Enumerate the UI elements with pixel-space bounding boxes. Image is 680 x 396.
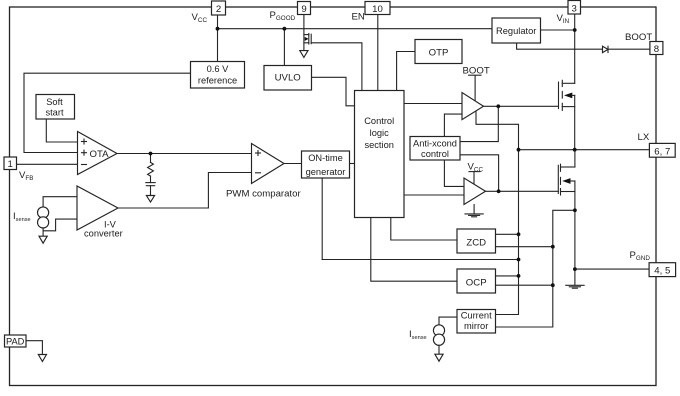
wire Q3 gate to control logic <box>311 43 362 91</box>
resistor R1 compensation <box>148 162 154 176</box>
block OCP <box>457 269 496 293</box>
ground arrow below Q3 <box>300 51 308 58</box>
junction OCP out1 <box>517 274 521 278</box>
op-amp PWM comparator <box>226 144 301 200</box>
wire low side driver to ground <box>473 205 475 214</box>
block Regulator <box>492 18 541 43</box>
junction PGND <box>573 267 577 271</box>
svg-text:BOOT: BOOT <box>625 32 652 43</box>
pin 10 <box>365 2 390 16</box>
wire Q2 source sense bus <box>496 210 575 327</box>
svg-text:6, 7: 6, 7 <box>654 146 670 157</box>
wire control logic to OCP input <box>371 218 457 282</box>
block OTP <box>415 40 462 64</box>
svg-text:control: control <box>421 149 449 159</box>
block Anti-xcond control <box>410 137 460 161</box>
ground arrow below PAD <box>38 355 46 362</box>
pin PAD <box>5 335 27 347</box>
junction VCC bus pin2 <box>216 27 220 31</box>
node VCC net label at driver <box>468 162 484 174</box>
wire I-V converter output to PWM comparator minus <box>118 173 252 209</box>
svg-text:4, 5: 4, 5 <box>654 266 670 277</box>
wire EN pin10 vertical to control logic <box>377 15 379 91</box>
svg-text:OTA: OTA <box>90 149 110 160</box>
pin 1 <box>4 157 17 170</box>
current source I2 Isense right <box>433 325 444 336</box>
svg-text:OCP: OCP <box>466 278 487 289</box>
svg-text:section: section <box>364 140 393 150</box>
junction VCC bus UVLO <box>283 27 287 31</box>
pin 4,5 <box>649 263 676 277</box>
transistor Q2 low side NMOS <box>558 150 575 211</box>
junction VIN regulator <box>573 28 577 32</box>
junction ZCD out1 <box>517 232 521 236</box>
svg-text:LX: LX <box>638 132 650 143</box>
wire anti-xcond top to high side driver <box>444 114 462 136</box>
svg-text:logic: logic <box>370 128 389 138</box>
pin 8 <box>650 42 663 56</box>
pin 2 <box>212 1 226 15</box>
wire control logic to high side driver <box>404 103 462 105</box>
wire PAD to ground <box>26 341 42 355</box>
transistor Q3 PGOOD open drain <box>304 34 311 45</box>
junction ZCD out2 <box>551 245 555 249</box>
wire control logic to low side driver <box>404 194 464 196</box>
wire I2 to ground <box>438 345 440 354</box>
svg-text:start: start <box>45 108 63 118</box>
wire PGND line to pin 4,5 <box>575 268 649 270</box>
svg-text:3: 3 <box>572 4 577 15</box>
wire ON-time generator bottom drop <box>321 178 323 260</box>
wire VCC pin2 vertical to 0.6V reference <box>217 15 219 62</box>
current source I1 Isense left <box>38 207 49 218</box>
wire I1 bottom to ground <box>42 228 44 236</box>
svg-text:ZCD: ZCD <box>466 237 486 248</box>
diode D1 bootstrap <box>603 46 609 52</box>
pin 9 <box>298 2 311 16</box>
svg-text:1: 1 <box>8 159 13 170</box>
wire ZCD output 2 to source sense bus <box>496 246 553 248</box>
block ZCD <box>457 229 496 253</box>
wire OTA output to PWM comparator plus <box>117 153 252 155</box>
block UVLO <box>264 66 312 91</box>
wire I1 bottom branch to I-V converter lower input <box>43 219 77 231</box>
wire OCP output 2 to source sense bus <box>496 284 553 286</box>
svg-text:mirror: mirror <box>464 321 488 331</box>
capacitor C1 compensation <box>146 182 155 184</box>
wire PGOOD pin9 vertical to Q3 drain <box>303 15 305 51</box>
svg-text:Soft: Soft <box>46 97 63 107</box>
svg-text:EN: EN <box>352 12 365 23</box>
svg-text:converter: converter <box>84 229 123 239</box>
wire high side driver output to Q1 gate <box>484 105 559 107</box>
ground earth PGND <box>566 284 584 286</box>
node BOOT net label at driver <box>463 66 490 77</box>
wire C1 to ground <box>150 186 152 196</box>
wire long net to sense bus <box>322 259 518 261</box>
low side gate driver U3 <box>464 178 486 205</box>
node BOOT label drop to driver <box>474 76 476 101</box>
ground arrow below C1 <box>146 196 154 203</box>
wire VIN pin3 vertical to Q1 drain <box>574 14 576 84</box>
wire VFB pin1 to OTA minus input <box>17 163 78 165</box>
svg-text:generator: generator <box>306 167 346 177</box>
svg-text:Current: Current <box>461 311 492 321</box>
wire diode D1 cathode to BOOT pin8 <box>608 48 650 50</box>
svg-text:Regulator: Regulator <box>496 26 536 36</box>
wire LX line to pin 6,7 <box>519 149 650 151</box>
wire current mirror to I2 <box>439 317 457 325</box>
transistor Q1 high side NMOS <box>559 80 575 149</box>
high side gate driver U2 <box>462 93 484 120</box>
wire 0.6V reference input rail <box>24 73 191 152</box>
junction long net <box>517 258 521 262</box>
wire high side gate feedback to anti-xcond <box>460 106 498 141</box>
pin 6,7 <box>649 143 675 157</box>
ground arrow below I1 <box>39 236 47 243</box>
svg-text:9: 9 <box>301 4 306 15</box>
wire Regulator output to VIN <box>541 29 575 31</box>
svg-text:ON-time: ON-time <box>308 153 343 163</box>
wire anti-xcond to low side gate node <box>460 155 499 192</box>
wire VCC bus horizontal to Regulator <box>218 28 493 30</box>
junction LX Q1 source <box>573 148 577 152</box>
junction OCP out2 <box>551 283 555 287</box>
ground earth below low side driver <box>465 213 483 215</box>
block 0.6 V reference <box>191 62 245 89</box>
wire OCP output 1 to LX sense bus <box>496 275 519 277</box>
block Control logic section <box>355 91 405 218</box>
wire Regulator to BOOT diode <box>517 43 603 49</box>
wire UVLO output to control logic <box>312 77 355 106</box>
wire R1 to C1 <box>150 176 152 183</box>
wire OTA output down to compensation R <box>150 154 152 163</box>
junction low side gate <box>497 189 501 193</box>
wire OTP to control logic <box>397 52 415 91</box>
svg-text:8: 8 <box>654 44 659 55</box>
ground arrow below I2 <box>435 354 443 361</box>
svg-text:OTP: OTP <box>429 48 449 59</box>
svg-text:reference: reference <box>198 76 237 86</box>
block Soft start <box>36 95 75 120</box>
junction Q2 source <box>573 208 577 212</box>
svg-text:2: 2 <box>216 4 221 15</box>
node VCC label drop to low side driver <box>473 172 475 184</box>
block ON-time generator <box>302 151 350 178</box>
wire ZCD output 1 to LX sense bus <box>496 233 519 235</box>
wire anti-xcond bottom to low side driver <box>444 160 464 186</box>
junction OTA output <box>149 152 153 156</box>
op-amp I-V converter <box>77 186 123 239</box>
wire driver sense to LX bus <box>476 111 519 315</box>
wire PWM output to ON-time generator <box>284 163 302 165</box>
svg-text:UVLO: UVLO <box>275 73 301 84</box>
wire low side driver output to Q2 gate <box>486 190 559 192</box>
svg-text:0.6 V: 0.6 V <box>207 64 230 74</box>
junction LX sense bus <box>517 148 521 152</box>
wire ON-time generator to control logic <box>350 163 355 165</box>
svg-text:Control: Control <box>364 116 394 126</box>
svg-text:PAD: PAD <box>6 336 25 346</box>
svg-text:10: 10 <box>372 4 383 15</box>
wire Q2 source to PGND node <box>574 210 576 284</box>
block Current mirror <box>457 310 496 334</box>
pin 3 <box>568 1 581 15</box>
svg-text:Anti-xcond: Anti-xcond <box>413 139 457 149</box>
wire control logic to ZCD input <box>391 218 457 241</box>
junction high side gate <box>496 104 500 108</box>
wire soft start to OTA plus input <box>46 119 77 142</box>
op-amp OTA error amplifier <box>78 132 118 175</box>
svg-text:PWM comparator: PWM comparator <box>226 189 301 200</box>
wire I1 top to I-V converter upper input <box>43 197 77 207</box>
wire UVLO drop from VCC bus <box>283 29 285 66</box>
